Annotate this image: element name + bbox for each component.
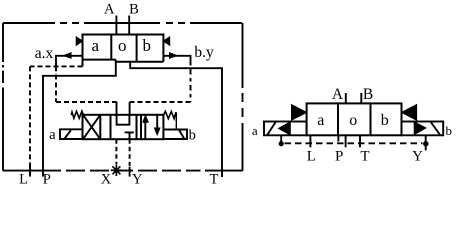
svg-text:a: a [252,123,258,138]
main valve letter b [143,36,152,55]
pilot right cell down arrow [156,115,158,129]
right drain left drop [280,135,282,142]
right solenoid a slash [267,122,276,136]
right drain left junction dot [279,141,284,146]
right valve right pilot triangle [402,105,417,121]
right port B tick [360,93,362,103]
svg-text:B: B [129,1,139,17]
main valve bottom edge left segment [83,59,116,61]
T line from main valve [130,62,222,171]
pilot left cell crossed arrows [83,115,100,139]
a.x arrowhead [62,52,71,59]
right valve letter b [381,112,389,129]
a.x pilot line [56,56,83,68]
right valve divider left [337,103,339,135]
svg-text:X: X [101,172,112,188]
P port label [43,172,51,188]
main valve divider right [136,35,138,62]
right port A label [332,86,344,103]
T port tick [221,171,223,177]
P line from main valve [43,60,116,171]
b.y dashed drop [190,62,192,102]
a.x dashed drop [55,66,57,102]
svg-text:A: A [104,1,115,17]
pilot divider right [136,115,138,139]
b.y pilot line [163,56,190,62]
svg-text:A: A [332,86,344,103]
solenoid a label [49,127,56,143]
svg-text:a.x: a.x [35,45,54,62]
solenoid b slash [179,130,184,139]
right solenoid a triangle [279,122,291,135]
right solenoid b box [402,122,444,136]
P port tick [42,171,44,177]
right port B label [363,86,373,103]
svg-text:a: a [49,127,56,143]
pilot left spring [71,111,83,118]
L port tick [29,167,31,177]
pilot transition divider left [99,115,101,139]
pilot right cell up arrow [144,121,146,139]
L drain dashed drop [29,66,31,170]
right port L tick [309,135,311,147]
pilot right spring [163,111,176,118]
main valve right pilot triangle [163,37,169,45]
main valve box (open bottom) [83,35,164,67]
svg-text:L: L [19,172,28,188]
T port label [209,172,218,188]
solenoid a slash [64,130,71,139]
right solenoid b slash [431,122,440,135]
port A line [115,16,117,35]
pilot solenoid b box [163,130,187,140]
pilot right spring connector [175,115,177,130]
right solenoid a label [252,123,258,138]
X dashed port line [115,139,117,164]
right valve divider right [370,103,372,135]
right port T label [360,149,369,165]
right solenoid b label [446,123,453,138]
main valve bottom edge right segment [115,61,164,63]
b.y label [194,44,214,61]
right valve letter o [349,112,357,129]
L drain dashed run [30,65,83,67]
Y dashed port line [129,139,131,171]
port A label [104,1,115,17]
enclosure (left assembly dash-dot boundary) top edge [3,22,243,24]
Y port tick [129,167,131,177]
right port Y label [412,149,423,165]
svg-text:B: B [363,86,373,103]
port B line [128,16,130,35]
svg-text:b.y: b.y [194,44,214,61]
right port T tick [359,135,361,147]
main valve letter o [118,36,127,55]
svg-text:P: P [43,172,51,188]
svg-text:T: T [360,149,369,165]
right drain right drop [425,135,427,150]
right solenoid b triangle [414,122,426,135]
pilot centre blocked port [125,132,134,139]
a.x dashed run to pilot [56,101,117,103]
b.y dashed run to pilot [130,101,191,103]
pilot divider left [110,115,112,139]
solenoid b label [189,128,196,144]
L port label [19,172,28,188]
svg-text:o: o [349,112,357,129]
enclosure right edge [242,23,244,171]
right port L label [307,148,316,164]
right solenoid a box [264,122,307,136]
enclosure bottom edge [3,170,243,172]
pilot B stub [129,102,131,115]
pilot solenoid a box [60,129,83,139]
X plug asterisk [111,165,122,176]
enclosure left edge [2,23,4,171]
pilot centre bridge [117,115,130,125]
svg-text:a: a [92,36,100,55]
svg-text:b: b [143,36,152,55]
right drain dashed line [285,142,423,144]
svg-text:L: L [307,148,316,164]
right port A tick [345,93,347,103]
svg-text:Y: Y [412,149,423,165]
right valve letter a [317,112,324,129]
a.x label [35,45,54,62]
svg-text:o: o [118,36,127,55]
right drain right junction dot [423,141,428,146]
right divider1 lower stub [337,135,339,141]
main valve left pilot triangle [76,37,82,45]
X port label [101,172,112,188]
right valve box [307,103,402,135]
pilot valve box [83,115,164,139]
right port P tick [345,135,347,147]
main valve letter a [92,36,100,55]
pilot transition divider right [140,115,142,139]
main valve divider left [110,35,112,60]
svg-text:P: P [335,148,343,164]
svg-text:b: b [189,128,196,144]
port B label [129,1,139,17]
svg-text:T: T [209,172,218,188]
right valve left pilot triangle [292,105,307,121]
svg-text:Y: Y [132,172,143,188]
pilot A stub [116,102,118,115]
svg-text:b: b [381,112,389,129]
b.y arrowhead [169,52,178,59]
right port P label [335,148,343,164]
svg-text:b: b [446,123,453,138]
svg-text:a: a [317,112,324,129]
Y port label [132,172,143,188]
